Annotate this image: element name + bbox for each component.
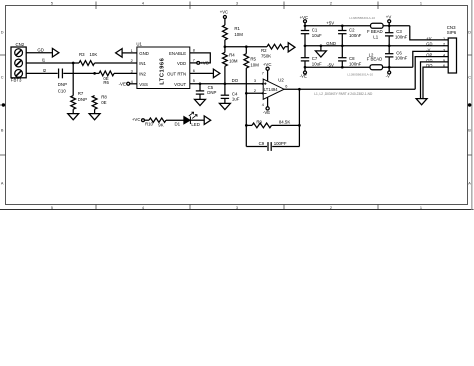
svg-text:C: C: [468, 76, 471, 80]
resistor R1: [223, 25, 228, 40]
wire R7 drop from I1 line: [72, 63, 74, 96]
junction R9 right: [298, 124, 301, 127]
svg-text:R10: R10: [145, 122, 154, 127]
op-amp U2 pin7 supply stub: [267, 70, 269, 81]
wire R1 to node A: [224, 40, 226, 47]
op-amp U1 LTC1966 box: [137, 47, 190, 89]
svg-text:C7: C7: [312, 56, 318, 61]
capacitor C10 (series, DNP): [59, 69, 63, 79]
ferrite bead L2 refdes label: [369, 53, 374, 58]
svg-text:100nF: 100nF: [395, 56, 408, 61]
svg-text:SIP6: SIP6: [447, 30, 457, 35]
zone letter C right: [468, 76, 471, 80]
resistor R3 refdes label: [79, 52, 85, 57]
junction U2 output: [298, 88, 301, 91]
svg-text:100nF: 100nF: [349, 62, 362, 67]
wire bottom rail bead to corner: [383, 66, 413, 68]
svg-text:OUT RTN: OUT RTN: [167, 71, 186, 76]
wire U1 pin5 VOUT / DO line to op-amp: [190, 83, 263, 85]
zone number 1 bottom: [420, 206, 422, 210]
svg-text:84.5K: 84.5K: [279, 119, 290, 124]
ferrite bead L1 refdes label: [373, 34, 378, 39]
capacitor C3: [385, 33, 393, 36]
resistor R6 value label 0E: [103, 76, 108, 81]
zone tick right 1: [468, 54, 472, 56]
svg-text:1uF: 1uF: [232, 97, 240, 102]
net connector arrow OUT RTN (right): [213, 69, 220, 78]
resistor R8 (0E): [92, 96, 97, 110]
capacitor C2 value label 100nF: [349, 33, 362, 38]
junction C7 bottom: [304, 66, 307, 69]
zone number 5 top: [51, 1, 53, 5]
junction dot U2 pin2: [262, 92, 264, 94]
connector CN2 refdes label: [16, 42, 25, 47]
svg-text:ENABLE: ENABLE: [169, 51, 186, 56]
wire +VC to R10: [144, 119, 149, 121]
capacitor C3 value label 100nF: [395, 34, 408, 39]
junction R5 top on node A wire: [245, 45, 248, 48]
wire U2 output / OP line: [284, 88, 415, 90]
resistor R5 refdes label: [250, 57, 256, 62]
zone letter A left: [1, 182, 4, 186]
U1 pin name VOUT: [174, 82, 186, 87]
svg-text:U2: U2: [278, 78, 284, 83]
op-amp U2 device name LT1494: [264, 87, 278, 92]
svg-text:I2: I2: [43, 68, 47, 73]
zone letter B left: [1, 129, 4, 133]
U1 pin name OUT RTN: [167, 71, 186, 76]
svg-text:VOUT: VOUT: [174, 82, 186, 87]
wire C9 line left: [246, 146, 267, 148]
junction GND rail at C1: [304, 44, 307, 47]
zone number 4 top: [142, 1, 145, 5]
svg-text:CN2: CN2: [16, 42, 25, 47]
svg-text:U1: U1: [136, 42, 142, 47]
CN3 pin 5 number: [443, 59, 445, 63]
connector CN3 value label SIP6: [447, 30, 457, 35]
svg-text:R4: R4: [229, 52, 235, 57]
wire node A to R5: [245, 47, 247, 54]
svg-text:VDD: VDD: [177, 61, 186, 66]
centre mark right: [468, 103, 472, 106]
wire feedback right riser: [298, 89, 300, 146]
svg-text:FBT3: FBT3: [11, 78, 22, 83]
svg-text:R3: R3: [79, 52, 85, 57]
svg-text:IN1: IN1: [139, 61, 146, 66]
ferrite bead L1 value label F BEAD: [367, 29, 383, 34]
wire pin2 line to op-amp: [246, 92, 263, 94]
ferrite bead L2: [370, 65, 383, 70]
svg-text:6: 6: [193, 69, 195, 73]
svg-text:+VC: +VC: [263, 62, 272, 67]
sheet inner border frame: [6, 6, 468, 205]
svg-text:VSS: VSS: [139, 82, 148, 87]
resistor R9 refdes label: [256, 119, 262, 124]
svg-text:GD: GD: [426, 42, 432, 47]
wire C3 upper stem: [388, 26, 390, 33]
ground below CN3: [416, 99, 427, 105]
wire C5 to ground: [199, 94, 201, 100]
node -V label at CN3 pin3: [426, 47, 430, 52]
capacitor C5 value label DNP: [207, 90, 216, 95]
wire node A horizontal: [225, 46, 267, 48]
wire R4 to DO line: [224, 66, 226, 84]
svg-text:R2: R2: [261, 48, 267, 53]
resistor R6: [99, 71, 114, 76]
svg-text:2: 2: [443, 43, 445, 47]
wire C2 upper stem: [341, 26, 343, 31]
svg-text:F BEAD: F BEAD: [367, 57, 383, 62]
svg-text:10M: 10M: [250, 63, 259, 68]
U1 pin name VDD: [177, 61, 186, 66]
svg-text:2: 2: [254, 89, 256, 93]
capacitor C8 value label 100nF: [349, 62, 362, 67]
wire I2 from R6 to U1 pin3: [114, 72, 137, 74]
resistor R10 refdes label: [145, 122, 154, 127]
op-amp U2 pin 2 number: [254, 89, 256, 93]
net connector arrow GD at U1 pin1 (left): [116, 49, 123, 58]
svg-text:5: 5: [51, 1, 53, 5]
capacitor C9 value label 100PF: [274, 141, 287, 146]
svg-text:-5V: -5V: [327, 62, 334, 67]
svg-text:+5V: +5V: [326, 21, 334, 26]
LED D1 diode: [184, 112, 197, 124]
svg-text:R8: R8: [101, 94, 107, 99]
resistor R2 value label 750K: [261, 54, 271, 59]
svg-text:A: A: [468, 182, 471, 186]
svg-text:5: 5: [443, 59, 445, 63]
svg-text:C1: C1: [312, 27, 318, 32]
connector CN2 screw terminal pin 3: [15, 70, 23, 78]
power symbol -VE at power rail: [300, 67, 307, 78]
svg-text:C2: C2: [349, 27, 355, 32]
capacitor C9: [268, 142, 271, 151]
op-amp U2 refdes label: [278, 78, 284, 83]
capacitor C10 refdes label: [58, 89, 67, 94]
svg-text:C9: C9: [259, 141, 265, 146]
zone number 5 bottom: [51, 206, 53, 210]
zone tick top 2: [189, 2, 191, 10]
svg-text:1: 1: [420, 206, 422, 210]
zone tick bottom 2: [189, 205, 191, 210]
U1 pin 5 number: [193, 79, 195, 83]
capacitor C6: [385, 54, 393, 57]
wire C9 line right: [272, 146, 299, 148]
svg-text:R5: R5: [250, 57, 256, 62]
wire C1 lower stem: [304, 34, 306, 46]
wire I1 from R3 to U1 pin2: [95, 62, 137, 64]
wire node A to R4: [224, 47, 226, 53]
ground below C4: [219, 103, 230, 109]
op-amp U2 pin4 supply stub: [267, 97, 269, 107]
svg-text:C: C: [1, 76, 4, 80]
svg-text:LED: LED: [191, 122, 199, 127]
node GND label: [326, 41, 336, 46]
svg-text:C8: C8: [349, 56, 355, 61]
svg-text:1: 1: [420, 1, 422, 5]
zone number 2 bottom: [330, 206, 332, 210]
junction C6 column on bottom rail: [388, 66, 391, 69]
svg-text:L13805B6301A-10: L13805B6301A-10: [349, 16, 375, 20]
wire bottom rail -5V: [305, 66, 370, 68]
capacitor C7: [301, 58, 309, 61]
wire C1 upper stem: [304, 26, 306, 31]
wire R8 to ground: [94, 109, 96, 113]
svg-text:5: 5: [51, 206, 53, 210]
capacitor C6 value label 100nF: [395, 56, 408, 61]
wire top rail bead to corner: [383, 25, 410, 27]
svg-text:6: 6: [443, 64, 445, 68]
wire CN3 pin4 OP route: [415, 57, 448, 90]
wire C4 stem: [224, 84, 226, 96]
svg-text:D: D: [468, 31, 471, 35]
U1 pin name ENABLE: [169, 51, 186, 56]
zone letter C left: [1, 76, 4, 80]
wire GND rail ground stem: [320, 46, 322, 51]
junction dot U2 pin3: [262, 83, 264, 85]
ground on GND rail: [315, 51, 326, 57]
ground below R7: [68, 114, 79, 120]
svg-text:DNP: DNP: [207, 90, 216, 95]
wire top rail +5V: [305, 25, 371, 27]
power symbol +VC at U2 pin7: [263, 62, 272, 70]
wire I2 from CN2 pin3 to C10: [26, 72, 58, 74]
wire I1 from CN2 pin2 to R3: [26, 62, 79, 64]
svg-text:L1: L1: [373, 34, 378, 39]
svg-text:10uF: 10uF: [312, 33, 322, 38]
resistor R7 value label DNP: [78, 97, 87, 102]
op-amp U2 pin 7 number: [262, 71, 264, 75]
op-amp U2 plus input mark: [264, 82, 267, 85]
capacitor C5 (DNP): [196, 91, 204, 94]
U1 pin name VSS: [139, 82, 148, 87]
power symbol +V at C3 column: [386, 14, 392, 22]
capacitor C5 refdes label: [208, 85, 214, 90]
capacitor C2 refdes label: [349, 27, 355, 32]
svg-text:+V: +V: [386, 14, 392, 19]
node +5V label: [326, 21, 334, 26]
op-amp U2 pin 3 number: [254, 79, 256, 83]
connector CN2 screw terminal pin 2: [15, 59, 23, 67]
net connector arrow at LED (right): [204, 116, 211, 125]
wire R2 to arrow: [285, 46, 288, 48]
wire CN3 pin1 +V route: [410, 26, 448, 40]
svg-text:+VC: +VC: [300, 15, 309, 20]
svg-text:1: 1: [443, 37, 445, 41]
connector CN3 outline: [448, 38, 456, 73]
zone tick top 3: [283, 2, 285, 10]
svg-text:9K: 9K: [158, 122, 163, 127]
op-amp U2 triangle: [263, 79, 284, 99]
wire CN3 pin5 GD route: [421, 62, 449, 99]
resistor R4 refdes label: [229, 52, 235, 57]
ferrite bead L1: [371, 23, 384, 28]
svg-text:3: 3: [131, 70, 133, 74]
note L1 L2 digikey part number: [314, 92, 373, 96]
svg-text:3: 3: [254, 79, 256, 83]
connector CN2 value label FBT3: [11, 78, 22, 83]
resistor R7 (DNP): [71, 96, 76, 110]
U1 pin name GND: [139, 51, 149, 56]
zone letter A right: [468, 182, 471, 186]
U1 pin name IN2: [139, 71, 146, 76]
svg-text:100nF: 100nF: [349, 33, 362, 38]
svg-text:8: 8: [193, 48, 195, 52]
wire U1 pin6 OUT RTN to arrow: [190, 72, 214, 74]
U1 pin 4 number: [131, 80, 134, 84]
node DO label: [232, 78, 239, 83]
capacitor C1: [301, 31, 309, 34]
wire U1 pin8 ENABLE jog: [190, 53, 211, 63]
ferrite bead L2 value label F BEAD: [367, 57, 383, 62]
ground below C5: [195, 99, 206, 105]
svg-text:10uF: 10uF: [312, 62, 322, 67]
svg-text:OP: OP: [426, 53, 432, 58]
U1 pin name IN1: [139, 61, 146, 66]
wire R5 riser crossing DO to pin2 node: [245, 68, 247, 146]
svg-text:L1, L2 ,DIGIKEY PART # 240-238: L1, L2 ,DIGIKEY PART # 240-2382-1-ND: [314, 92, 373, 96]
svg-text:GD: GD: [37, 47, 44, 52]
U1 pin 1 number: [131, 49, 133, 53]
wire U1 pin7 VDD stub: [190, 62, 197, 64]
svg-text:750K: 750K: [261, 54, 271, 59]
svg-text:+VC: +VC: [200, 61, 209, 66]
node GD label at CN3 pin2: [426, 42, 432, 47]
capacitor C9 refdes label: [259, 141, 265, 146]
connector CN2 screw terminal pin 1: [15, 49, 23, 57]
node GND rail: [305, 45, 448, 47]
svg-text:100PF: 100PF: [274, 141, 287, 146]
wire CN3 pin3 -V route: [413, 51, 448, 67]
wire C2 lower stem: [341, 34, 343, 46]
junction C3 column on top rail: [388, 24, 391, 27]
zone number 2 top: [330, 1, 332, 5]
svg-text:GND: GND: [326, 41, 336, 46]
svg-text:C10: C10: [58, 89, 67, 94]
node -5V label: [327, 62, 334, 67]
zone tick bottom 3: [283, 205, 285, 210]
svg-text:3: 3: [236, 206, 238, 210]
junction GND rail at C3 column: [388, 44, 391, 47]
wire R10 to D1: [166, 119, 184, 121]
wire GD from CN2 pin1 to arrow: [26, 52, 52, 54]
power symbol +VC at LED branch: [132, 117, 145, 122]
svg-text:7: 7: [262, 71, 264, 75]
CN3 pin 6 number: [443, 64, 445, 68]
resistor R4: [223, 52, 228, 66]
node GD label: [37, 47, 44, 52]
zone tick right 2: [468, 154, 472, 156]
U1 refdes label: [136, 42, 142, 47]
U1 pin 6 number: [193, 69, 195, 73]
svg-text:100nF: 100nF: [395, 34, 408, 39]
wire R7 to ground: [72, 109, 74, 113]
CN3 pin 2 number: [443, 43, 445, 47]
connector CN2 outline: [11, 47, 26, 78]
node +V label at CN3 pin1: [426, 36, 431, 41]
svg-text:+V: +V: [426, 36, 431, 41]
svg-text:-VE: -VE: [300, 74, 307, 79]
junction R5/pin2 node: [245, 92, 248, 95]
svg-text:2: 2: [330, 1, 332, 5]
junction R4/C4 on DO line: [224, 82, 227, 85]
ferrite bead L2 part number: [347, 73, 373, 77]
junction R7 tap on I1: [72, 62, 75, 65]
capacitor C1 value label 10uF: [312, 33, 322, 38]
svg-text:2: 2: [131, 59, 133, 63]
svg-text:LT1494: LT1494: [264, 87, 278, 92]
wire R9 line right: [272, 124, 300, 126]
node OP label at CN3 pin4: [426, 53, 432, 58]
node GD label at CN3 pin5: [426, 58, 432, 63]
node DO label at CN3 pin6: [426, 63, 432, 68]
wire C3 lower stem: [388, 36, 390, 46]
ferrite bead L1 part number: [349, 16, 375, 20]
LED D1 value label LED: [191, 122, 199, 127]
junction C1 top: [304, 24, 307, 27]
sheet outer right border line: [471, 0, 473, 210]
svg-text:2: 2: [330, 206, 332, 210]
resistor R7 refdes label: [78, 91, 84, 96]
capacitor C4 value label 1uF: [232, 97, 240, 102]
wire C8 lower stem: [341, 61, 343, 67]
svg-text:6: 6: [285, 85, 287, 89]
ground below R8: [89, 114, 100, 120]
wire I2 from C10 to R8 junction: [63, 72, 94, 74]
capacitor C8 refdes label: [349, 56, 355, 61]
resistor R3: [79, 61, 95, 66]
zone letter D left: [1, 31, 4, 35]
resistor R6 refdes label: [103, 80, 109, 85]
capacitor C4 refdes label: [232, 91, 238, 96]
U1 pin 7 number: [193, 58, 195, 62]
svg-text:+VC: +VC: [220, 9, 228, 14]
svg-text:DNP: DNP: [78, 97, 87, 102]
CN3 pin 4 number: [443, 54, 446, 58]
op-amp U2 minus input mark: [264, 92, 267, 94]
junction R9 left: [245, 124, 248, 127]
sheet outer bottom border line: [0, 209, 474, 211]
wire +VC stem to top rail: [304, 23, 306, 26]
junction C8 bottom: [341, 66, 344, 69]
wire U1 pin1 GND to arrow: [122, 52, 137, 54]
zone tick bottom 4: [377, 205, 379, 210]
svg-text:R1: R1: [234, 26, 240, 31]
svg-text:DNP: DNP: [58, 82, 67, 87]
svg-text:3: 3: [236, 1, 238, 5]
U1 device name LTC1966: [159, 58, 165, 85]
resistor R10 value label 9K: [158, 122, 163, 127]
resistor R4 value label 10M: [229, 58, 238, 63]
U1 pin 3 number: [131, 70, 133, 74]
svg-text:A: A: [1, 182, 4, 186]
wire C8 upper stem: [341, 46, 343, 58]
zone number 4 bottom: [142, 206, 145, 210]
resistor R5 value label 10M: [250, 63, 259, 68]
power symbol -VE at U1 pin4: [119, 82, 130, 87]
junction node A at R1/R4: [224, 45, 227, 48]
junction R8 tap on I2: [93, 72, 96, 75]
zone tick left 2: [0, 154, 6, 156]
zone tick top 4: [377, 2, 379, 10]
junction C2 top: [341, 24, 344, 27]
svg-text:L13805B6301A-10: L13805B6301A-10: [347, 73, 373, 77]
resistor R9: [252, 123, 272, 128]
resistor R8 value label 0E: [101, 100, 106, 105]
svg-text:I1: I1: [42, 58, 46, 63]
capacitor C1 refdes label: [312, 27, 318, 32]
svg-text:0E: 0E: [101, 100, 106, 105]
